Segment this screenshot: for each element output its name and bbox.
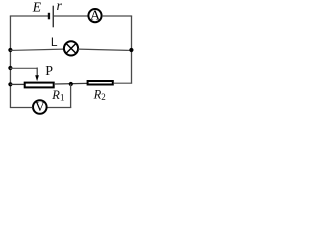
slider arrow P <box>35 68 39 82</box>
svg-text:r: r <box>57 0 63 14</box>
svg-text:V: V <box>35 99 45 114</box>
svg-text:A: A <box>90 9 101 24</box>
wire slider horizontal <box>10 67 37 69</box>
wire lamp row right <box>78 49 132 50</box>
node left slider junction <box>8 66 12 70</box>
node right-rail lamp junction <box>129 48 133 52</box>
wire ammeter to top-right corner <box>102 15 132 17</box>
wire top-left from corner to battery <box>10 15 48 17</box>
svg-text:P: P <box>45 64 53 79</box>
lamp L <box>64 41 78 55</box>
wire voltmeter right <box>47 107 71 109</box>
wire rheostat to node <box>55 82 87 85</box>
wire left rail <box>9 16 11 108</box>
wire voltmeter branch vertical <box>70 84 72 108</box>
wire R2 to right rail <box>113 82 132 84</box>
wire right rail <box>131 16 133 84</box>
wire to rheostat <box>10 83 25 85</box>
battery E r <box>48 6 54 28</box>
resistor R2 <box>88 81 113 85</box>
svg-text:E: E <box>32 0 42 14</box>
wire voltmeter left <box>10 107 33 109</box>
voltmeter U-V <box>33 99 47 114</box>
rheostat R1 <box>25 83 54 88</box>
wire battery to ammeter <box>54 15 89 17</box>
node left rheostat junction <box>8 82 12 86</box>
node voltmeter branch junction <box>69 82 73 86</box>
svg-text:L: L <box>51 35 58 49</box>
ammeter U-A <box>88 9 101 24</box>
node left-lamp junction <box>8 48 12 52</box>
wire lamp row left <box>10 49 64 50</box>
